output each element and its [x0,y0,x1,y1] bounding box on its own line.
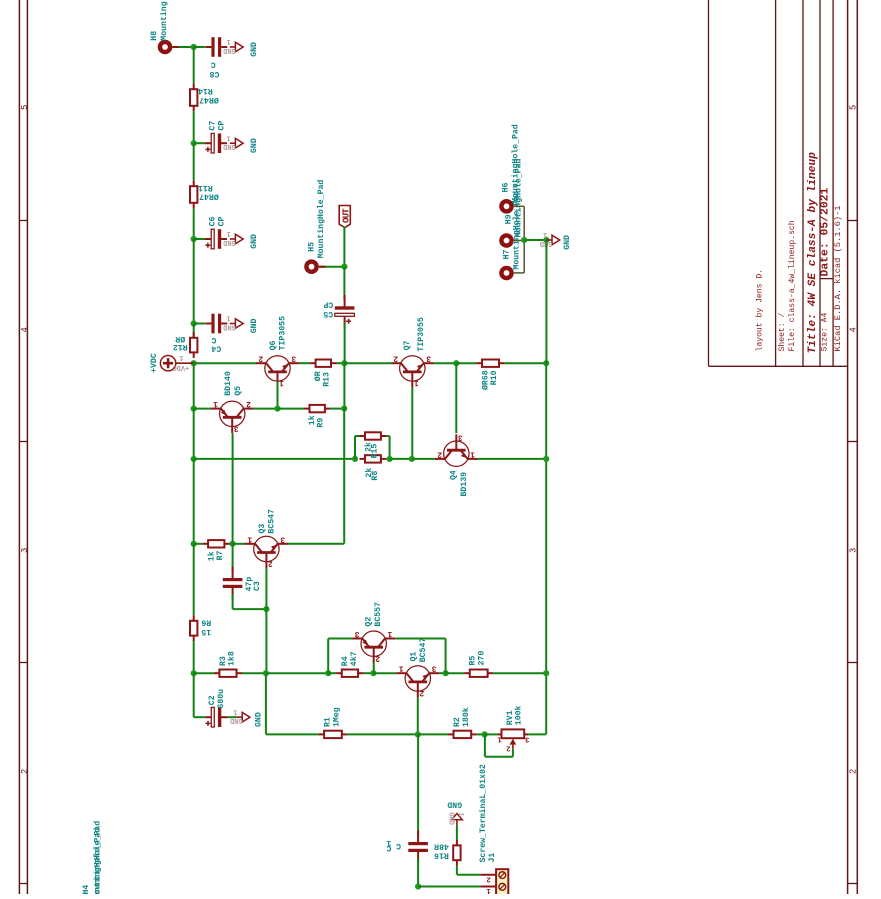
svg-text:BC547: BC547 [267,509,276,534]
svg-text:R9: R9 [316,418,325,428]
junction gnd top right rail [543,237,549,243]
svg-text:CP: CP [323,299,333,308]
resistor R1 [319,707,348,738]
wire Q2 base stub [373,662,375,673]
wire R3node down to R1 row [266,673,319,734]
wire R3row a [194,672,214,674]
wire rail seg3 [193,143,195,181]
junction Q5 row left [191,406,197,412]
svg-text:1: 1 [247,534,252,543]
svg-text:BC557: BC557 [374,602,383,627]
resistor R15 [360,432,387,439]
svg-text:MountingHole_Pad: MountingHole_Pad [511,191,521,270]
svg-text:R1: R1 [324,717,333,727]
svg-text:TIP3055: TIP3055 [417,317,426,351]
transistor Q3 [245,509,288,568]
svg-text:layout by Jens D.: layout by Jens D. [756,269,765,352]
global label OUT [339,206,351,228]
wire R8row c [412,458,435,460]
wire Q3row a [194,543,203,545]
resistor R8 [360,455,387,462]
svg-text:1: 1 [279,378,284,387]
junction left-rail/H8 [191,44,197,50]
wire Q6-R13 [299,362,310,364]
wire rail seg1 [193,47,195,84]
wire C4 stub [194,323,205,325]
svg-text:2: 2 [486,874,490,882]
wire R3row c [266,672,328,674]
svg-text:+VDC: +VDC [150,353,159,373]
wire right rail d [545,673,547,734]
resistor R16 [434,840,461,866]
svg-text:2: 2 [20,769,30,774]
svg-text:5: 5 [20,105,30,110]
junction Q4 base node [453,360,459,366]
svg-text:1: 1 [414,378,419,387]
wire left rail R6-R3 [193,641,195,673]
svg-text:2: 2 [393,354,398,363]
power symbol GND (Hpads) [540,230,572,250]
wire R16 to J1 pin2 [457,866,480,875]
junction Q5 base node [230,541,236,547]
resistor R10 [477,360,505,391]
svg-text:R4: R4 [341,656,350,666]
svg-text:ØR: ØR [313,371,323,381]
svg-text:4k7: 4k7 [349,651,359,666]
wire C7 stub [194,142,205,144]
svg-text:1: 1 [399,664,404,673]
junction right-rail/R10 [543,360,549,366]
svg-text:GND: GND [250,234,259,249]
resistor R7 [203,540,230,561]
wire R5node-R5 [446,672,465,674]
wire OUTnode-C5 [343,267,345,301]
junction R2/RV1 node [482,731,488,737]
wire mid-Q3 [288,543,345,545]
wire R8row a [194,458,355,460]
mounting hole pad H8 [158,40,173,55]
svg-text:3: 3 [426,354,431,363]
wire R8row d [478,458,546,460]
wire Q3row c [233,543,246,545]
svg-text:File: class-a_4w_lineup.sch: File: class-a_4w_lineup.sch [788,220,797,351]
wire Q7 base down [411,388,413,459]
wire left rail 9-R6 [193,544,195,616]
labels C1 [386,838,401,852]
svg-text:2: 2 [437,449,442,458]
wire R10-rightrail [505,362,547,364]
svg-text:BD139: BD139 [460,472,469,497]
wire RV1 wiper loop [485,734,513,756]
svg-text:OUT: OUT [341,208,351,223]
wire Hpads-GND [524,239,546,241]
mounting hole pad H6 [499,199,514,214]
wire R15 loop left [355,436,360,459]
svg-text:C7: C7 [209,121,218,131]
wire mid vert a [343,363,345,408]
svg-text:180k: 180k [461,707,471,727]
junction R3 row left [191,670,197,676]
svg-text:GND: GND [255,712,264,727]
junction R8 row left [191,456,197,462]
svg-text:1: 1 [233,707,237,715]
transistor Q7 [391,317,434,388]
label H8 [150,1,169,40]
wire Q3row b [230,543,233,545]
svg-text:MountingHole_Pad: MountingHole_Pad [316,180,326,259]
svg-text:R8: R8 [371,471,380,481]
potentiometer RV1 [497,705,530,751]
svg-text:1: 1 [456,812,464,816]
svg-text:GND: GND [563,235,572,250]
wire Q3 base down [265,568,267,609]
svg-text:+VDC: +VDC [172,363,189,371]
wire rail seg6 [193,324,195,338]
junction C4 tap [191,320,197,326]
svg-text:GND: GND [223,322,236,330]
svg-text:H4: H4 [82,885,91,894]
capacitor C5 [323,295,354,328]
svg-text:1Meg: 1Meg [332,707,341,727]
junction C1/J1 node [415,883,421,889]
svg-text:3: 3 [458,432,463,441]
svg-text:1: 1 [226,229,230,237]
svg-text:Q4: Q4 [449,470,458,480]
svg-text:1k: 1k [206,551,216,561]
svg-text:4: 4 [20,327,30,332]
svg-text:1k: 1k [307,415,317,425]
svg-text:BD140: BD140 [224,371,233,396]
svg-text:C6: C6 [209,216,218,226]
wire C5-rail [344,323,346,364]
power symbol GND (R16) [447,800,464,826]
junction Q2 base node [370,670,376,676]
svg-text:Sheet: /: Sheet: / [778,313,787,352]
svg-text:Date: 05/2021: Date: 05/2021 [819,187,831,276]
svg-text:KiCad E.D.A. kicad (5.1.6)-1: KiCad E.D.A. kicad (5.1.6)-1 [833,206,843,352]
resistor R5 [464,651,493,677]
svg-text:1: 1 [543,230,547,238]
svg-text:R16: R16 [434,850,449,859]
svg-text:Screw_TerminaL_01x02: Screw_TerminaL_01x02 [478,764,488,862]
wire R3row b [242,672,266,674]
svg-text:GND: GND [250,318,259,333]
svg-text:R7: R7 [216,550,225,560]
mounting hole pad H9 [499,233,514,248]
svg-text:R3: R3 [219,656,228,666]
svg-text:680u: 680u [217,689,226,709]
power symbol GND (C7) [223,133,259,153]
svg-text:CP: CP [217,121,226,131]
wire J1 pin1 wire [418,886,480,888]
svg-text:3: 3 [355,629,360,638]
svg-text:3: 3 [280,534,285,543]
junction C6 tap [191,236,197,242]
svg-text:1: 1 [213,399,218,408]
wire left rail to C2 [194,673,205,717]
svg-text:1: 1 [497,734,502,742]
wire R15 loop right [386,436,389,459]
wire H5 to junction [319,266,345,268]
svg-text:Q5: Q5 [234,386,243,396]
wire Q1 base down [417,698,419,735]
svg-text:2: 2 [258,354,263,363]
wire rail seg5 [193,239,195,324]
svg-text:GND: GND [223,238,236,246]
junction C7 tap [191,140,197,146]
capacitor C2 [205,689,227,727]
wire H6/H9/H7 bracket [514,206,524,273]
capacitor C3 [223,567,262,600]
resistor R2 [448,707,477,738]
junction C3/Q3base [263,606,269,612]
svg-text:R12: R12 [173,342,188,351]
resistor R6 [190,615,211,641]
capacitor C1 [408,831,428,864]
svg-text:15: 15 [201,627,211,636]
junction R3/R1 node [263,670,269,676]
svg-text:C: C [211,60,216,69]
svg-text:C: C [386,843,391,852]
connector J1 screw terminal [478,764,509,895]
power symbol +VDC [150,353,194,373]
svg-text:GND: GND [447,812,455,825]
svg-text:2: 2 [375,653,380,662]
wire left rail 6-7 [193,363,195,408]
svg-text:Q6: Q6 [269,340,278,350]
power symbol GND (C6) [223,229,259,249]
svg-text:Q1: Q1 [409,652,418,662]
svg-text:C3: C3 [253,581,262,591]
resistor R14 [190,84,219,112]
wire R3row d [328,672,336,674]
label H5 [307,180,326,259]
svg-text:H5: H5 [307,242,316,252]
svg-text:2: 2 [419,688,424,697]
wire Q7-Q4base [434,362,457,364]
junction Q2 emitter node [325,670,331,676]
wire R2-RV1 [477,733,485,735]
svg-text:C2: C2 [208,695,217,705]
sheet frame right band [848,0,859,894]
power symbol GND (C8) [223,37,259,57]
wire Q2 collector down [395,639,445,674]
svg-text:Title: 4W SE class-A by lineup: Title: 4W SE class-A by lineup [807,152,819,354]
svg-text:2: 2 [506,743,510,751]
capacitor C6 [205,216,227,248]
svg-text:5: 5 [849,105,859,110]
wire R4-Q2base [364,672,374,674]
wire OUT-junction [343,227,345,267]
resistor R4 [336,651,363,677]
resistor R3 [214,651,242,677]
wire Q5row b [254,408,278,410]
junction Q1 base node [415,731,421,737]
svg-text:TIP3055: TIP3055 [278,316,287,350]
wire Q5 base down [232,433,234,544]
wire R1-Q1base [347,733,418,735]
svg-text:100k: 100k [514,705,524,725]
transistor Q2 [352,602,395,663]
svg-text:1: 1 [226,314,230,322]
svg-text:C: C [396,841,401,850]
svg-text:H8: H8 [150,31,159,41]
transistor Q4 [435,432,478,496]
svg-text:2: 2 [268,559,273,568]
resistor R12 [173,332,198,358]
wire GND-R16 [456,825,458,840]
labels R15 and R8 values [363,442,380,481]
wire Q1base-R2 [418,733,448,735]
svg-text:1: 1 [226,133,230,141]
wire Q2base-Q1 [373,672,396,674]
svg-text:Mounting: Mounting [159,1,169,40]
wire Q1base-C1 [417,734,419,836]
svg-text:GND: GND [250,138,259,153]
svg-text:H6: H6 [502,182,511,192]
transistor Q5 [211,371,254,433]
svg-text:3: 3 [525,734,529,742]
svg-text:R6: R6 [201,618,211,627]
wire C5node-Q7 [344,362,390,364]
wire Q5row a [194,408,211,410]
svg-text:GND: GND [223,142,236,150]
junction R9 right [341,406,347,412]
svg-text:ØR47: ØR47 [199,95,219,105]
svg-text:2: 2 [849,769,859,774]
wire left rail 8-9 [193,459,195,544]
svg-text:R14: R14 [198,86,213,95]
wire RV1 left [485,733,498,735]
wire rail seg2 [193,111,195,143]
wire right rail a [545,240,547,363]
wire right rail b [545,363,547,459]
sheet frame left band [19,0,29,894]
svg-text:1: 1 [226,37,230,45]
label H4 (partially cropped) [82,821,103,899]
svg-text:1: 1 [470,449,475,458]
power symbol GND (C2) [230,707,264,727]
capacitor C7 [205,121,227,153]
svg-text:4: 4 [849,327,859,332]
resistor R9 [304,405,330,428]
wire Q5row d [330,408,344,410]
wire Q1-R5node [439,672,445,674]
wire Q4 base up [455,363,457,433]
wire right rail c [545,459,547,673]
svg-text:R2: R2 [453,717,462,727]
svg-text:Size: A4: Size: A4 [820,313,829,352]
wire left rail 7-8 [193,409,195,459]
junction Q7 base node [409,456,415,462]
junction C5 node [341,360,347,366]
svg-text:1: 1 [387,629,392,638]
svg-text:BC547: BC547 [419,638,428,663]
resistor R11 [190,181,219,209]
wire C2-GND [227,716,237,718]
junction R15 left [352,456,358,462]
wire C6 stub [194,238,205,240]
svg-text:GND: GND [223,46,236,54]
svg-text:1: 1 [486,886,491,894]
svg-text:CP: CP [217,216,226,226]
svg-text:C: C [211,335,216,344]
junction R8 row right [543,456,549,462]
svg-text:R11: R11 [198,183,213,192]
svg-text:H7: H7 [503,249,512,259]
junction R5 right [543,670,549,676]
transistor Q1 [396,638,439,698]
svg-text:Q2: Q2 [364,617,373,627]
junction Q6 base node [274,406,280,412]
wire C1-J1row [417,858,419,887]
svg-text:J1: J1 [488,853,497,863]
wire R13-C5node [337,362,345,364]
svg-text:1: 1 [179,353,183,361]
svg-text:R5: R5 [469,656,478,666]
svg-text:GND: GND [250,42,259,57]
wire vdc-Q6 [194,362,257,364]
resistor R13 [310,360,336,387]
wire R5-rightrail [493,672,546,674]
junction OUT node [341,264,347,270]
svg-text:C5: C5 [323,309,333,318]
svg-text:2: 2 [246,399,251,408]
wire H8 to junction [172,46,193,48]
svg-text:3: 3 [20,548,30,553]
svg-text:3: 3 [291,354,296,363]
svg-text:GND: GND [447,800,462,809]
svg-text:R10: R10 [490,370,499,385]
wire C3 bottom [233,594,267,609]
svg-text:3: 3 [849,548,859,553]
svg-text:Q7: Q7 [403,340,412,350]
wire Q6 base down [277,382,279,409]
svg-text:3: 3 [432,664,437,673]
svg-text:R15: R15 [370,444,379,459]
junction R8 right [387,456,393,462]
wire Q5row c [278,408,305,410]
svg-text:48R: 48R [434,842,449,851]
wire C3 up [232,544,234,572]
capacitor C4 [205,314,227,353]
power symbol GND (C4) [223,314,259,334]
svg-text:1k8: 1k8 [227,651,237,666]
title block [709,0,848,366]
svg-text:GND: GND [230,716,243,724]
wire rail seg4 [193,208,195,239]
junction Q1/R5 node [443,670,449,676]
junction +VDC node [191,360,197,366]
svg-text:MountingHole_Pad: MountingHole_Pad [92,828,102,894]
labels H6 H9 H7 [502,124,524,269]
wire Q3 base down2 [265,609,267,673]
wire R8row b [390,458,412,460]
transistor Q6 [256,316,299,388]
wire mid vert b [343,409,345,544]
svg-text:C8: C8 [210,69,220,78]
wire C8 stub [194,46,205,48]
mounting hole pad H7 [499,266,514,281]
svg-text:RV1: RV1 [506,710,515,725]
junction H pads [521,237,527,243]
junction Q3 row left [191,541,197,547]
mounting hole pad H5 [304,259,319,274]
svg-text:270: 270 [477,651,486,666]
svg-text:ØR47: ØR47 [199,192,219,202]
svg-text:3: 3 [234,423,239,432]
svg-text:C4: C4 [211,344,221,353]
